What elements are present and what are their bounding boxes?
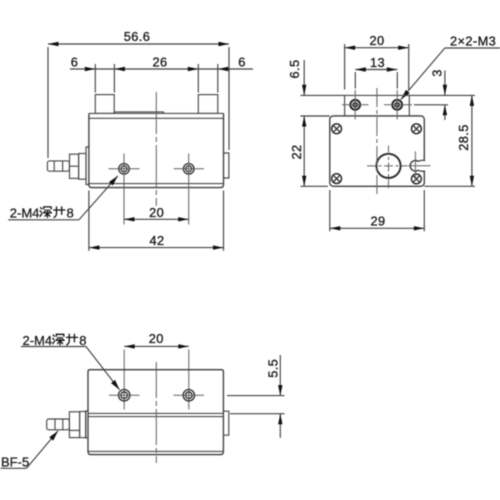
corner screw TR [412, 124, 422, 134]
side port C shape [410, 160, 425, 171]
M3 hole right center lines [384, 90, 412, 120]
dim 6-26-6 line [70, 67, 253, 71]
post right [198, 95, 218, 114]
hole left inner [121, 166, 127, 172]
nozzle nut mid line (view3) [69, 429, 79, 431]
hole right center line (view3) [174, 394, 205, 396]
top lip [115, 112, 164, 114]
hole left inner (view3) [121, 392, 128, 399]
svg-text:2×2-M3: 2×2-M3 [450, 33, 496, 48]
svg-text:56.6: 56.6 [124, 29, 151, 44]
svg-text:29: 29 [370, 214, 385, 229]
nozzle nut [70, 154, 79, 178]
nozzle nut mid line [70, 165, 79, 167]
label 2x2-M3 leader [401, 48, 500, 100]
hole right inner (view3) [186, 392, 193, 399]
post left [95, 95, 114, 114]
label BF-5 leader [1, 431, 59, 468]
nozzle nut (view3) [69, 412, 79, 438]
dim 42 extension lines [89, 191, 224, 251]
label leader (view3) [21, 347, 120, 390]
label 2-M4 depth 8 (view3) [23, 333, 87, 348]
svg-text:28.5: 28.5 [456, 124, 471, 151]
svg-text:13: 13 [370, 55, 385, 70]
svg-text:22: 22 [289, 144, 304, 159]
big port circle [376, 154, 400, 178]
svg-text:20: 20 [149, 205, 164, 220]
dim 5.5 lines [278, 355, 282, 438]
dim 28.5 bottom extension line [424, 185, 475, 187]
corner screw TL [332, 124, 342, 134]
dim 13 line [355, 67, 397, 71]
svg-text:2-M4: 2-M4 [10, 206, 40, 221]
body outline [89, 113, 224, 187]
right side tab (view3) [223, 411, 228, 435]
top plate [89, 113, 224, 118]
tab outline [345, 95, 410, 116]
nozzle barb (view3) [47, 419, 70, 430]
nozzle barb ribs [54, 161, 62, 171]
svg-text:42: 42 [149, 233, 164, 248]
hole left center lines [109, 154, 140, 225]
nozzle barb ribs (view3) [55, 419, 63, 430]
dim 20 extension lines (view2) [345, 44, 409, 90]
corner screw BR [412, 174, 422, 184]
dim 20 line (view3) [124, 344, 189, 348]
body seam line [89, 183, 224, 185]
block bottom seam (view3) [88, 450, 223, 452]
hole right outer (view3) [183, 390, 194, 401]
svg-text:3: 3 [430, 69, 445, 77]
dim 20 line (view2) [345, 46, 409, 50]
dim 6.5 extension lines [301, 95, 345, 116]
nozzle face plate [86, 147, 89, 185]
svg-text:6: 6 [238, 54, 246, 69]
hole left outer [119, 164, 130, 175]
svg-text:8: 8 [79, 333, 86, 348]
nozzle face plate (view3) [86, 411, 88, 438]
hole left center line (view3) [109, 394, 140, 396]
svg-text:6: 6 [71, 54, 79, 69]
dim 20 extension lines (view3) [124, 350, 189, 410]
M3 hole right ring [392, 100, 402, 110]
dim 22 bottom extension line [301, 185, 329, 187]
right side tab [224, 153, 229, 178]
side port center lines [408, 151, 431, 177]
side port notch gap [423, 161, 426, 171]
nozzle flange [79, 154, 86, 180]
block seam lines (view3) [88, 413, 223, 416]
svg-text:BF-5: BF-5 [1, 455, 29, 470]
dim 13 extension lines [355, 72, 397, 89]
dim 29 extension lines [330, 190, 425, 231]
dim 29 line [330, 226, 425, 230]
label leader [8, 176, 118, 220]
dim 20 line [124, 217, 189, 221]
svg-text:20: 20 [369, 33, 384, 48]
nozzle barb [47, 161, 69, 171]
block center line [155, 92, 157, 206]
block outline (view3) [88, 370, 223, 455]
M3 hole left ring [350, 100, 360, 110]
svg-text:5.5: 5.5 [265, 359, 280, 378]
hole left outer (view3) [119, 390, 130, 401]
svg-text:2-M4: 2-M4 [23, 333, 53, 348]
dim 3 extension lines [409, 95, 475, 104]
big circle center lines [367, 146, 408, 189]
body center line (view2) [376, 88, 378, 196]
dim 56.6 extension lines [48, 47, 229, 158]
svg-text:8: 8 [67, 206, 74, 221]
svg-text:6.5: 6.5 [287, 60, 302, 79]
hole right center lines [174, 154, 204, 225]
hole right inner [186, 166, 192, 172]
hole right outer [183, 164, 194, 175]
dim 3 lines [443, 71, 447, 121]
svg-text:20: 20 [149, 331, 164, 346]
svg-text:26: 26 [152, 54, 167, 69]
dim 42 line [89, 245, 224, 249]
dim 56.6 line [48, 42, 229, 46]
nozzle flange (view3) [80, 412, 86, 438]
dim 5.5 extension lines [227, 396, 285, 414]
dim 28.5 line [470, 95, 474, 186]
M3 hole left center lines [342, 90, 369, 120]
dim 6-26-6 extension lines [95, 64, 218, 93]
label 2-M4 depth 8 [10, 206, 74, 221]
corner screw BL [332, 174, 342, 184]
dim 22 line [302, 116, 306, 186]
body outline (view2) [330, 116, 425, 186]
block center line (view3) [155, 362, 157, 463]
dim 6.5 line [302, 60, 306, 95]
